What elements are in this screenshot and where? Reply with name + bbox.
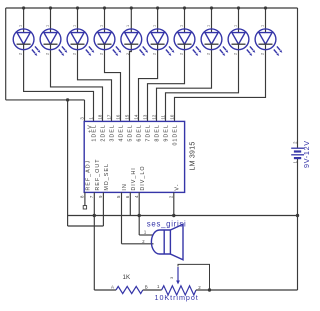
- wire: MD_SEL stub down (pin 9): [102, 192, 104, 226]
- svg-text:9V-12V: 9V-12V: [302, 140, 311, 168]
- svg-text:2DEL: 2DEL: [101, 124, 107, 141]
- wire: V+ feed horizontal into chip pin 3: [6, 99, 85, 101]
- LED1 cathode bar: [17, 43, 31, 45]
- svg-text:11: 11: [160, 114, 165, 119]
- svg-text:1: 1: [126, 25, 130, 27]
- junction: LED6 on rail: [156, 6, 159, 9]
- wire: right border (rail to battery +): [297, 8, 299, 148]
- wire: ground/ref horizontal line: [68, 215, 298, 217]
- LED D6: [147, 29, 174, 56]
- wire: branch down left of chip: [67, 100, 69, 226]
- svg-text:REF_OUT: REF_OUT: [95, 158, 101, 190]
- LED D2: [40, 29, 67, 56]
- wire: cathode of LED9 to chip pin LED9: [166, 44, 239, 121]
- svg-text:7DEL: 7DEL: [146, 124, 152, 141]
- wire: anode of LED7 from rail: [184, 8, 186, 33]
- svg-text:B: B: [145, 284, 148, 289]
- wire: right border (battery - down to bottom corner): [297, 158, 299, 290]
- wire: REF_OUT riser (pin 7 down to 1K resistor): [93, 192, 95, 290]
- wire: cathode of LED8 to chip pin LED8: [157, 44, 212, 121]
- LED D3: [67, 29, 94, 56]
- junction: DIV_LO on ref line: [138, 214, 141, 217]
- wire: cathode of LED7 to chip pin LED7: [148, 44, 185, 121]
- svg-text:2: 2: [233, 53, 237, 55]
- svg-text:1: 1: [18, 25, 22, 27]
- svg-text:REF_ADJ: REF_ADJ: [86, 160, 92, 191]
- wire: V+ top rail: [6, 7, 298, 9]
- wire: cathode of LED4 to chip pin LED4: [105, 44, 121, 121]
- svg-text:2: 2: [179, 53, 183, 55]
- wire: anode of LED9 from rail: [238, 8, 240, 33]
- LED10 cathode bar: [259, 43, 273, 45]
- junction: V+/MD_SEL branch: [66, 98, 69, 101]
- wire: V- stub (pin 2): [173, 192, 175, 215]
- LED D10: [255, 29, 282, 56]
- junction: V- on ground line: [172, 214, 175, 217]
- LED D7: [174, 29, 201, 56]
- LED2 cathode bar: [44, 43, 58, 45]
- wire: cathode of LED6 to chip pin LED6: [139, 44, 158, 121]
- svg-text:1DEL: 1DEL: [92, 124, 98, 141]
- junction: ground line at right border: [296, 214, 299, 217]
- svg-text:2: 2: [206, 53, 210, 55]
- wire: anode of LED10 from rail: [265, 8, 267, 33]
- svg-text:1: 1: [260, 25, 264, 27]
- svg-text:DIV_HI: DIV_HI: [131, 167, 137, 190]
- battery BT1 9V-12V: [291, 148, 304, 158]
- svg-text:14: 14: [133, 114, 138, 119]
- LED D1: [13, 29, 40, 56]
- svg-text:1K: 1K: [123, 274, 131, 281]
- wire: speaker pin2 horizontal: [122, 243, 154, 245]
- LED9 cathode bar: [232, 43, 246, 45]
- speaker LS1 (ses_girisi): [151, 224, 183, 260]
- junction: wiper loop on bottom wire: [208, 288, 211, 291]
- wire: trimpot wiper loop: [178, 264, 210, 290]
- wire: cathode of LED3 to chip pin LED3: [78, 44, 112, 121]
- svg-text:2: 2: [99, 53, 103, 55]
- wire: bottom wire left segment: [94, 289, 116, 291]
- LED3 cathode bar: [71, 43, 85, 45]
- LED D4: [94, 29, 121, 56]
- svg-text:1: 1: [72, 25, 76, 27]
- wire: speaker pin1 horizontal: [139, 234, 153, 236]
- trimpot wiper arrow: [176, 267, 180, 284]
- junction: LED8 on rail: [210, 6, 213, 9]
- svg-text:2: 2: [152, 53, 156, 55]
- junction: LED7 on rail: [183, 6, 186, 9]
- svg-text:2: 2: [260, 53, 264, 55]
- svg-text:1: 1: [179, 25, 183, 27]
- junction: REF_OUT on ground-ref line: [93, 214, 96, 217]
- junction: LED3 on rail: [76, 6, 79, 9]
- svg-text:9DEL: 9DEL: [164, 124, 170, 141]
- wire: cathode of LED1 to chip pin LED1: [24, 44, 94, 121]
- svg-text:12: 12: [151, 114, 156, 119]
- wire: anode of LED8 from rail: [211, 8, 213, 33]
- svg-text:2: 2: [72, 53, 76, 55]
- LED8 cathode bar: [205, 43, 219, 45]
- svg-text:V-: V-: [174, 184, 180, 191]
- svg-text:10: 10: [169, 114, 174, 119]
- svg-text:A: A: [111, 285, 114, 290]
- svg-text:17: 17: [106, 114, 111, 119]
- svg-text:LM 3915: LM 3915: [190, 142, 197, 171]
- junction: LED4 on rail: [103, 6, 106, 9]
- svg-text:1: 1: [233, 25, 237, 27]
- wire: anode of LED4 from rail: [104, 8, 106, 33]
- svg-text:4DEL: 4DEL: [119, 124, 125, 141]
- LED7 cathode bar: [178, 43, 192, 45]
- wire: anode of LED3 from rail: [77, 8, 79, 33]
- wire: REF_ADJ stub (pin 8, open): [84, 192, 86, 205]
- wire: DIV_HI stub (pin 6): [129, 192, 131, 215]
- LED D9: [228, 29, 255, 56]
- junction: LED2 on rail: [49, 6, 52, 9]
- wire: DIV_LO stub (pin 4) down to speaker pin1 level: [138, 192, 140, 235]
- LED D5: [121, 29, 148, 56]
- wire: anode of LED2 from rail: [50, 8, 52, 33]
- svg-text:01DEL: 01DEL: [173, 124, 179, 145]
- LED D8: [201, 29, 228, 56]
- svg-text:13: 13: [142, 114, 147, 119]
- svg-text:1: 1: [206, 25, 210, 27]
- junction: LED5 on rail: [130, 6, 133, 9]
- svg-text:2: 2: [18, 53, 22, 55]
- svg-text:1: 1: [152, 25, 156, 27]
- wire: between R1 and trimpot: [143, 289, 162, 291]
- svg-text:ses_girisi: ses_girisi: [147, 219, 187, 228]
- trimpot R2 zigzag: [162, 286, 196, 295]
- wire: cathode of LED10 to chip pin LED10: [175, 44, 266, 121]
- junction: LED10 on rail: [264, 6, 267, 9]
- wire: V+ pin stub: [84, 100, 86, 122]
- svg-text:15: 15: [124, 114, 129, 119]
- junction: LED9 on rail: [237, 6, 240, 9]
- wire: IN stub down to speaker pin 2 (pin 5): [121, 192, 123, 243]
- node: REF_ADJ open pin square: [83, 206, 86, 209]
- svg-text:16: 16: [115, 114, 120, 119]
- svg-text:3DEL: 3DEL: [110, 124, 116, 141]
- wire: cathode of LED5 to chip pin LED5: [130, 44, 132, 121]
- svg-text:8DEL: 8DEL: [155, 124, 161, 141]
- LED4 cathode bar: [98, 43, 112, 45]
- LED5 cathode bar: [124, 43, 138, 45]
- wire: MD_SEL horizontal to V+ branch: [68, 225, 104, 227]
- resistor R1 1K zigzag: [116, 286, 143, 293]
- wire: anode of LED6 from rail: [157, 8, 159, 33]
- op-amp/IC U1 LM3915 body: [84, 121, 184, 192]
- svg-text:6DEL: 6DEL: [137, 124, 143, 141]
- svg-text:2: 2: [45, 53, 49, 55]
- svg-text:2: 2: [126, 53, 130, 55]
- wire: anode of LED1 from rail: [23, 8, 25, 33]
- wire: left border (rail down to V+ feed): [5, 8, 7, 100]
- svg-text:10Ktrimpot: 10Ktrimpot: [155, 293, 199, 302]
- wire: anode of LED5 from rail: [130, 8, 132, 33]
- junction: LED1 on rail: [22, 6, 25, 9]
- svg-text:IN: IN: [122, 183, 128, 190]
- svg-text:1: 1: [99, 25, 103, 27]
- svg-text:MD_SEL: MD_SEL: [104, 163, 110, 191]
- LED6 cathode bar: [151, 43, 165, 45]
- wire: bottom wire right segment: [196, 289, 298, 291]
- svg-text:18: 18: [97, 114, 102, 119]
- svg-text:1: 1: [45, 25, 49, 27]
- svg-text:DIV_LO: DIV_LO: [140, 165, 146, 190]
- svg-text:5DEL: 5DEL: [128, 124, 134, 141]
- wire: cathode of LED2 to chip pin LED2: [51, 44, 103, 121]
